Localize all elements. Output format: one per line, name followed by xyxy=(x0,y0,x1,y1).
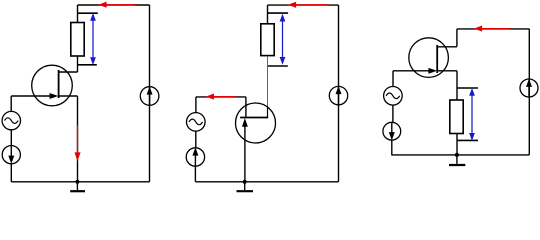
current source I3 (up, C2) xyxy=(186,148,204,166)
wire resistor to drain C1 xyxy=(77,56,79,72)
wire left branch top C1 xyxy=(10,96,12,112)
wire top rail C1 xyxy=(78,4,150,6)
tick bottom (voltage ref) C2 xyxy=(268,65,288,67)
current source I1 (down) xyxy=(2,146,20,164)
tick top (voltage ref) C1 xyxy=(78,12,98,14)
tick top (voltage ref) C3 xyxy=(457,87,478,89)
wire right branch C1 xyxy=(149,5,151,182)
wire between sources C3 xyxy=(392,105,394,122)
transistor Q3 (JFET) xyxy=(409,38,457,78)
wire source down C1 xyxy=(77,96,79,182)
node S3 junction xyxy=(455,153,459,157)
wire bottom rail C3 xyxy=(391,154,529,156)
node G2 junction xyxy=(243,180,247,184)
wire source down C3 xyxy=(456,71,458,100)
wire drain vertical C2 xyxy=(267,5,269,23)
arrow current io (red, source wire C1) xyxy=(75,125,80,160)
ground C3 xyxy=(449,155,465,165)
wire drain vertical C1 xyxy=(77,5,79,23)
wire bottom rail C1 xyxy=(11,181,149,183)
current source I6 (up, C3) xyxy=(520,79,538,97)
current source I2 (up, C1) xyxy=(140,87,159,106)
wire between sources C2 xyxy=(195,131,197,148)
wire top rail C3 xyxy=(457,28,530,30)
arrow current i (red, top rail C1) xyxy=(100,2,136,7)
wire left branch bottom C3 xyxy=(391,140,393,155)
wire left branch bottom C2 xyxy=(194,166,196,182)
transistor Q1 (JFET) xyxy=(32,65,78,106)
wire resistor to rail C3 xyxy=(456,134,458,155)
wire bottom rail C2 xyxy=(196,181,339,183)
resistor RS3 xyxy=(450,100,463,134)
arrow current i (red, top rail C2) xyxy=(289,2,327,7)
AC source V2 xyxy=(187,113,206,132)
wire gate down C2 xyxy=(244,126,246,182)
arrow current ii (red, input wire C2) xyxy=(207,94,235,99)
resistor RD2 xyxy=(261,24,274,56)
tick bottom (voltage ref) C1 xyxy=(78,64,97,66)
voltage arrow vout (blue, C1) xyxy=(91,14,96,64)
tick bottom (voltage ref) C3 xyxy=(457,139,478,141)
wire left branch bottom C1 xyxy=(10,164,12,182)
arrow current i (red, top rail C3) xyxy=(475,26,510,31)
transistor Q2 (JFET, rotated) xyxy=(236,97,276,143)
tick top (voltage ref) C2 xyxy=(268,12,289,14)
wire input C2 xyxy=(196,96,246,98)
current source I5 (down, C3) xyxy=(383,122,401,140)
wire left branch top C2 xyxy=(195,97,197,113)
wire top rail C2 xyxy=(268,4,339,6)
wire right branch C3 xyxy=(528,29,530,155)
ground C2 xyxy=(237,182,254,191)
voltage arrow vout (blue, C2) xyxy=(280,15,285,64)
AC source V3 xyxy=(384,87,403,106)
wire between sources C1 xyxy=(10,130,12,146)
current source I4 (up, C2) xyxy=(329,86,347,104)
wire gate C1 xyxy=(11,95,50,97)
wire left branch top C3 xyxy=(392,71,394,87)
wire resistor to drain C2 (thin) xyxy=(267,56,269,106)
wire gate C3 xyxy=(393,70,429,72)
wire drain vertical C3 xyxy=(456,29,458,47)
resistor RD1 xyxy=(71,23,84,57)
node S1 junction xyxy=(75,180,79,184)
voltage arrow vout (blue, C3) xyxy=(470,89,475,139)
AC source V1 xyxy=(2,111,20,129)
wire right branch C2 xyxy=(338,5,340,182)
ground C1 xyxy=(70,182,85,191)
